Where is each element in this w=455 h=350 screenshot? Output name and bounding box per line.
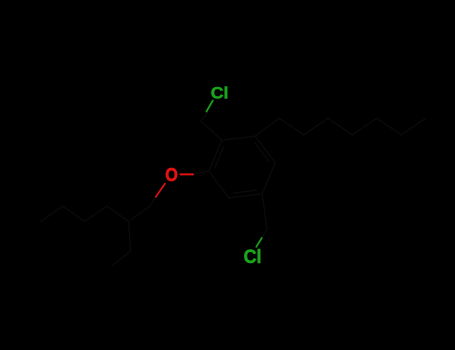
svg-text:Cl: Cl <box>244 245 262 267</box>
svg-text:Cl: Cl <box>211 83 229 103</box>
svg-text:O: O <box>165 164 178 185</box>
